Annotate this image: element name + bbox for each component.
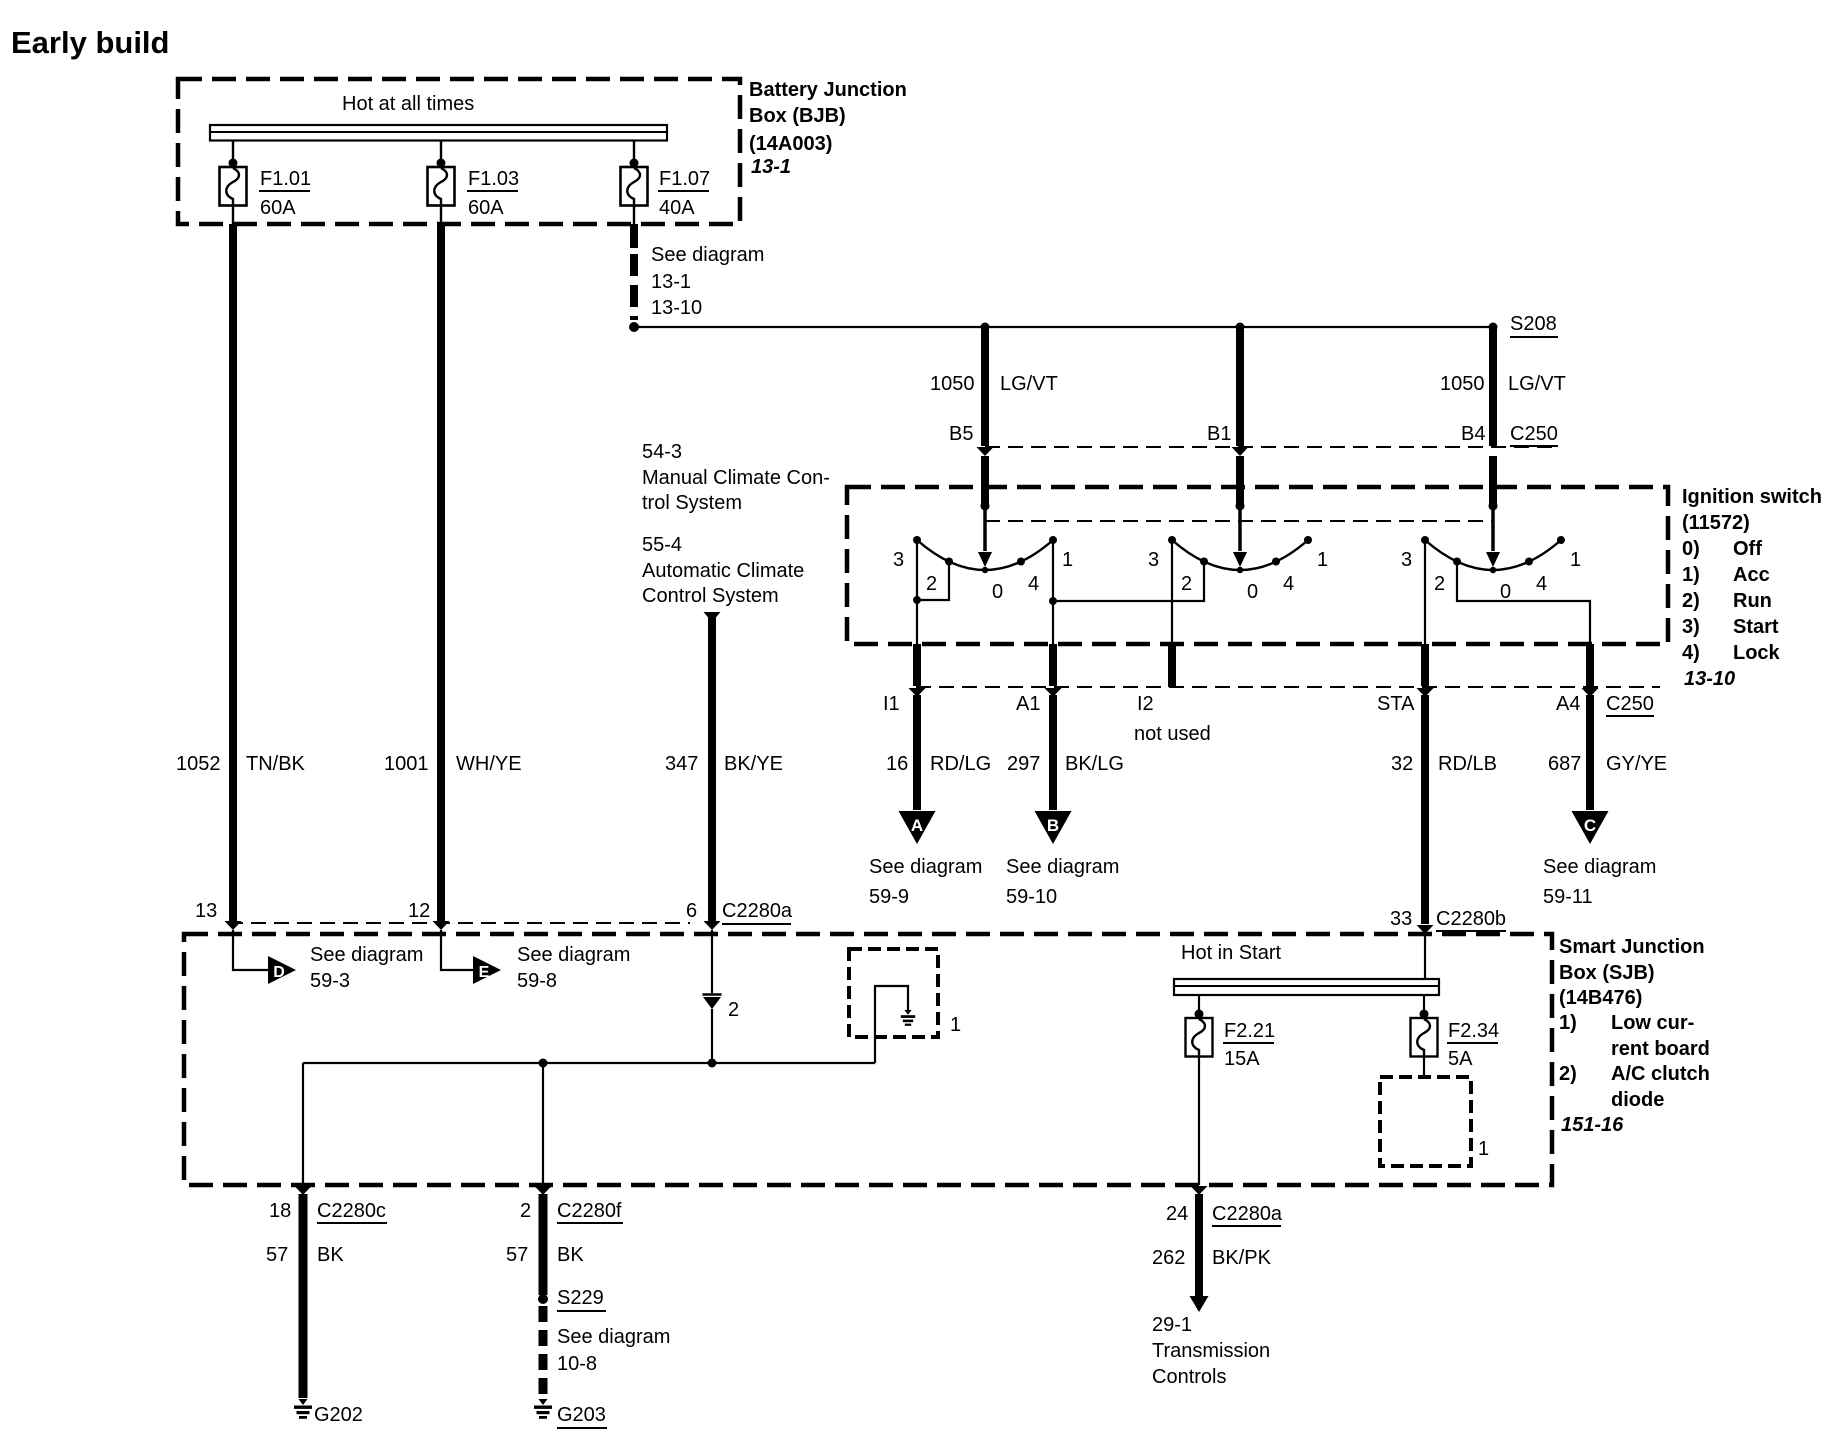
svg-text:3: 3: [1401, 549, 1412, 571]
connector arrow at pin 12: [433, 921, 450, 930]
wire I1 output: [913, 644, 921, 686]
svg-text:297: 297: [1007, 753, 1040, 775]
switch 2 contact 3 line to I2: [1171, 540, 1173, 644]
wire fuse F1.07 to BJB edge: [633, 206, 635, 225]
svg-text:Ignition switch: Ignition switch: [1682, 486, 1822, 508]
wire STA output 32 RD/LB: [1421, 644, 1429, 686]
svg-text:262: 262: [1152, 1247, 1185, 1269]
dashed wire to G203: [539, 1306, 548, 1396]
switch 1 contact 2 jumper: [917, 562, 949, 600]
svg-text:A: A: [911, 816, 923, 835]
svg-text:S208: S208: [1510, 313, 1557, 335]
svg-text:F1.07: F1.07: [659, 168, 710, 190]
wire bus to fuse F2.21: [1198, 995, 1200, 1018]
junction dot B5 branch: [981, 323, 990, 332]
wire 1050 LG/VT to B5: [981, 327, 989, 446]
junction dot C2280f branch: [539, 1059, 548, 1068]
svg-text:See diagram: See diagram: [517, 944, 630, 966]
switch 3 contact 3 line to STA: [1424, 540, 1426, 644]
svg-text:See diagram: See diagram: [651, 244, 764, 266]
svg-text:C2280a: C2280a: [722, 900, 793, 922]
svg-text:13-1: 13-1: [751, 156, 791, 178]
fuse F2.21 15A: [1186, 1018, 1213, 1057]
svg-text:GY/YE: GY/YE: [1606, 753, 1667, 775]
svg-text:54-3: 54-3: [642, 441, 682, 463]
svg-text:WH/YE: WH/YE: [456, 753, 522, 775]
svg-text:Hot at all times: Hot at all times: [342, 93, 474, 115]
switch 3 wiper feed line: [1491, 506, 1495, 551]
svg-text:RD/LG: RD/LG: [930, 753, 991, 775]
svg-text:Controls: Controls: [1152, 1366, 1226, 1388]
wire fuse F1.03 to BJB edge: [440, 206, 442, 225]
svg-text:rent board: rent board: [1611, 1038, 1710, 1060]
Battery Junction Box (BJB) dashed enclosure: [178, 79, 740, 224]
svg-text:13-10: 13-10: [651, 297, 702, 319]
wire A1 output: [1049, 644, 1057, 686]
bus bar Hot in Start: [1174, 979, 1439, 995]
svg-text:3): 3): [1682, 616, 1700, 638]
inner dashed link line: [985, 520, 1493, 522]
svg-text:Manual Climate Con-: Manual Climate Con-: [642, 467, 830, 489]
wire 347 BK/YE: [708, 617, 716, 921]
connector arrow at B1: [1232, 447, 1249, 456]
svg-text:1052: 1052: [176, 753, 221, 775]
wire from F1.07 dashed segment (see diagram): [630, 254, 638, 320]
wire 57 BK left: [299, 1194, 308, 1398]
junction dot at fuse F1.01: [229, 159, 238, 168]
svg-text:Lock: Lock: [1733, 642, 1781, 664]
svg-text:18: 18: [269, 1200, 291, 1222]
svg-text:12: 12: [408, 900, 430, 922]
connector arrow at pin 6: [704, 921, 721, 930]
junction dot switch 1: [913, 596, 921, 604]
svg-text:4): 4): [1682, 642, 1700, 664]
svg-text:A/C clutch: A/C clutch: [1611, 1063, 1710, 1085]
svg-text:40A: 40A: [659, 197, 695, 219]
connector arrow at 33 C2280b: [1417, 925, 1434, 934]
svg-text:F2.21: F2.21: [1224, 1020, 1275, 1042]
svg-text:STA: STA: [1377, 693, 1415, 715]
wire 33 into SJB: [1424, 934, 1426, 979]
wire bus to fuse F1.01: [232, 140, 234, 167]
svg-text:C2280f: C2280f: [557, 1200, 622, 1222]
svg-text:1): 1): [1559, 1012, 1577, 1034]
svg-text:57: 57: [266, 1244, 288, 1266]
off-page arrow A: [899, 811, 936, 844]
svg-text:F1.01: F1.01: [260, 168, 311, 190]
wire F2.34 to A/C clutch diode box: [1423, 1057, 1425, 1078]
svg-text:1050: 1050: [1440, 373, 1485, 395]
junction dot at F2.34: [1420, 1010, 1429, 1019]
wire B5 into switch: [981, 456, 989, 506]
svg-text:4: 4: [1283, 573, 1294, 595]
svg-text:BK: BK: [557, 1244, 584, 1266]
connector line C250 (ignition switch): [985, 446, 1556, 448]
junction node S208 branch: [629, 322, 639, 332]
svg-text:10-8: 10-8: [557, 1353, 597, 1375]
wire fuse F1.01 to BJB edge: [232, 206, 234, 225]
svg-text:1): 1): [1682, 564, 1700, 586]
wire B4 into switch: [1489, 456, 1497, 506]
Ignition switch dashed enclosure: [847, 487, 1668, 644]
off-page arrow D: [268, 956, 296, 984]
svg-text:2): 2): [1559, 1063, 1577, 1085]
junction dot switch 3 feed: [1489, 502, 1498, 511]
junction dot at F2.21: [1195, 1010, 1204, 1019]
svg-text:C250: C250: [1510, 423, 1558, 445]
svg-text:RD/LB: RD/LB: [1438, 753, 1497, 775]
svg-text:Acc: Acc: [1733, 564, 1770, 586]
svg-text:24: 24: [1166, 1203, 1188, 1225]
svg-text:D: D: [273, 964, 285, 981]
svg-text:See diagram: See diagram: [1006, 856, 1119, 878]
svg-text:(14A003): (14A003): [749, 133, 832, 155]
ground G202: [299, 1399, 308, 1405]
svg-text:TN/BK: TN/BK: [246, 753, 306, 775]
svg-text:diode: diode: [1611, 1089, 1664, 1111]
svg-text:57: 57: [506, 1244, 528, 1266]
switch 1 contact arc: [917, 540, 1053, 570]
wire pin 13 to arrow D: [233, 930, 268, 970]
connector arrow at pin 13: [225, 921, 242, 930]
ground bus wire inside SJB: [303, 1062, 875, 1064]
A/C clutch diode dashed box (1): [1380, 1077, 1471, 1166]
svg-text:C250: C250: [1606, 693, 1654, 715]
off-page arrow B: [1035, 811, 1072, 844]
svg-text:Hot in Start: Hot in Start: [1181, 942, 1281, 964]
svg-text:2: 2: [1434, 573, 1445, 595]
svg-text:59-9: 59-9: [869, 886, 909, 908]
wire diode to ground bus: [711, 1009, 713, 1063]
off-page arrow E: [473, 956, 501, 984]
svg-text:A1: A1: [1016, 693, 1040, 715]
wire 262 BK/PK: [1195, 1194, 1203, 1297]
connector line C2280 (SJB top): [228, 922, 690, 924]
switch 2 wiper feed line: [1238, 506, 1242, 551]
svg-text:59-8: 59-8: [517, 970, 557, 992]
svg-text:13: 13: [195, 900, 217, 922]
svg-text:2: 2: [1181, 573, 1192, 595]
switch 2 contact dots: [1168, 536, 1176, 544]
wire from F1.07 solid segment: [630, 224, 638, 248]
arrow into wire 347: [704, 612, 721, 622]
switch 1 contact 1 line to A1 and switch 2 contact 2: [1053, 540, 1204, 601]
ground G203: [539, 1399, 548, 1405]
svg-text:B1: B1: [1207, 423, 1231, 445]
svg-text:3: 3: [1148, 549, 1159, 571]
connector arrow at 2 C2280f: [535, 1186, 552, 1195]
wire 57 BK right: [539, 1194, 548, 1295]
svg-text:not used: not used: [1134, 723, 1211, 745]
bus bar Hot at all times: [210, 125, 667, 141]
svg-text:I1: I1: [883, 693, 900, 715]
svg-text:0): 0): [1682, 538, 1700, 560]
svg-text:BK: BK: [317, 1244, 344, 1266]
connector arrow at B5: [977, 447, 994, 456]
svg-text:C: C: [1584, 816, 1596, 835]
svg-text:1001: 1001: [384, 753, 429, 775]
svg-text:0: 0: [1247, 581, 1258, 603]
svg-text:See diagram: See diagram: [557, 1326, 670, 1348]
svg-text:151-16: 151-16: [1561, 1114, 1624, 1136]
connector arrow at 24 C2280a: [1191, 1186, 1208, 1195]
switch 1 contact 3 line to I1: [916, 540, 918, 644]
svg-text:Run: Run: [1733, 590, 1772, 612]
svg-text:(14B476): (14B476): [1559, 987, 1642, 1009]
connector arrow at 18 C2280c: [295, 1186, 312, 1195]
wire pin 12 to arrow E: [441, 930, 473, 970]
svg-text:13-1: 13-1: [651, 271, 691, 293]
switch 3 contact 2 line to A4: [1457, 562, 1590, 644]
wire B1 into switch: [1236, 456, 1244, 506]
svg-text:2: 2: [520, 1200, 531, 1222]
connector line C250 (outputs): [916, 686, 1660, 688]
arrow to transmission controls: [1190, 1296, 1209, 1312]
svg-text:Control System: Control System: [642, 585, 779, 607]
svg-text:Start: Start: [1733, 616, 1779, 638]
svg-text:Off: Off: [1733, 538, 1762, 560]
svg-text:60A: 60A: [260, 197, 296, 219]
wire to splice S208: [634, 326, 1493, 328]
wire I2 stub (not used): [1168, 644, 1176, 687]
svg-text:5A: 5A: [1448, 1048, 1473, 1070]
wire 1001 WH/YE from F1.03: [437, 224, 445, 921]
wire drop to B1: [1236, 327, 1244, 446]
wire A4 output 687 GY/YE: [1586, 644, 1594, 686]
wire 1052 TN/BK from F1.01: [229, 224, 237, 921]
svg-text:F2.34: F2.34: [1448, 1020, 1499, 1042]
svg-text:32: 32: [1391, 753, 1413, 775]
svg-text:Low cur-: Low cur-: [1611, 1012, 1694, 1034]
fuse F1.07 40A: [621, 167, 648, 206]
svg-text:BK/LG: BK/LG: [1065, 753, 1124, 775]
internal ground symbol: [904, 1010, 911, 1015]
svg-text:347: 347: [665, 753, 698, 775]
svg-text:15A: 15A: [1224, 1048, 1260, 1070]
internal ground dashed box (1): [849, 949, 938, 1037]
switch 2 wiper arrow: [1233, 552, 1247, 567]
wire F2.21 down to SJB edge: [1198, 1057, 1200, 1186]
svg-text:A4: A4: [1556, 693, 1580, 715]
switch 3 contact dots: [1421, 536, 1429, 544]
wire 1050 LG/VT to B4: [1489, 327, 1497, 446]
junction dot at fuse F1.07: [630, 159, 639, 168]
svg-text:1: 1: [1570, 549, 1581, 571]
wire bus to fuse F2.34: [1423, 995, 1425, 1018]
svg-text:See diagram: See diagram: [1543, 856, 1656, 878]
svg-text:55-4: 55-4: [642, 534, 682, 556]
splice S229: [538, 1294, 548, 1304]
wire drop to C2280f: [542, 1063, 544, 1185]
svg-text:4: 4: [1028, 573, 1039, 595]
svg-text:3: 3: [893, 549, 904, 571]
svg-text:16: 16: [886, 753, 908, 775]
off-page arrow C: [1572, 811, 1609, 844]
svg-text:C2280c: C2280c: [317, 1200, 386, 1222]
A/C clutch diode (2): [703, 993, 722, 996]
svg-text:13-10: 13-10: [1684, 668, 1735, 690]
svg-text:59-11: 59-11: [1543, 886, 1593, 908]
Smart Junction Box dashed enclosure: [184, 934, 1552, 1185]
svg-text:trol System: trol System: [642, 492, 742, 514]
svg-text:59-10: 59-10: [1006, 886, 1057, 908]
svg-text:Smart Junction: Smart Junction: [1559, 936, 1705, 958]
svg-text:BK/PK: BK/PK: [1212, 1247, 1272, 1269]
svg-text:LG/VT: LG/VT: [1508, 373, 1566, 395]
wire bus to fuse F1.03: [440, 140, 442, 167]
svg-text:2: 2: [728, 999, 739, 1021]
wire to internal ground: [875, 986, 908, 1063]
svg-text:0: 0: [992, 581, 1003, 603]
svg-text:C2280b: C2280b: [1436, 908, 1506, 930]
svg-text:B: B: [1047, 816, 1059, 835]
svg-text:1: 1: [1317, 549, 1328, 571]
junction dot S208: [1489, 323, 1498, 332]
svg-text:F1.03: F1.03: [468, 168, 519, 190]
switch 1 wiper feed line: [983, 506, 987, 551]
svg-text:LG/VT: LG/VT: [1000, 373, 1058, 395]
svg-text:1: 1: [1478, 1138, 1489, 1160]
svg-text:1050: 1050: [930, 373, 975, 395]
svg-text:60A: 60A: [468, 197, 504, 219]
svg-text:1: 1: [950, 1014, 961, 1036]
junction dot switch 1 feed: [981, 502, 990, 511]
fuse F2.34 5A: [1411, 1018, 1438, 1057]
svg-text:C2280a: C2280a: [1212, 1203, 1283, 1225]
svg-text:33: 33: [1390, 908, 1412, 930]
svg-text:2): 2): [1682, 590, 1700, 612]
junction dot switch 2 feed: [1236, 502, 1245, 511]
junction dot B1 branch: [1236, 323, 1245, 332]
svg-text:B5: B5: [949, 423, 973, 445]
svg-text:G202: G202: [314, 1404, 363, 1426]
svg-text:See diagram: See diagram: [869, 856, 982, 878]
svg-text:1: 1: [1062, 549, 1073, 571]
svg-text:687: 687: [1548, 753, 1581, 775]
fuse F1.03 60A: [428, 167, 455, 206]
svg-text:S229: S229: [557, 1287, 604, 1309]
svg-text:(11572): (11572): [1682, 512, 1750, 534]
svg-text:59-3: 59-3: [310, 970, 350, 992]
svg-text:Battery Junction: Battery Junction: [749, 79, 907, 101]
svg-text:0: 0: [1500, 581, 1511, 603]
svg-text:4: 4: [1536, 573, 1547, 595]
switch 2 contact arc: [1172, 540, 1308, 570]
wire pin 6 to diode: [711, 930, 713, 993]
switch 3 wiper arrow: [1486, 552, 1500, 567]
junction dot at fuse F1.03: [437, 159, 446, 168]
svg-text:See diagram: See diagram: [310, 944, 423, 966]
svg-text:E: E: [479, 964, 490, 981]
svg-text:I2: I2: [1137, 693, 1154, 715]
junction dot diode to bus: [708, 1059, 717, 1068]
svg-text:6: 6: [686, 900, 697, 922]
svg-text:B4: B4: [1461, 423, 1485, 445]
svg-text:Early build: Early build: [11, 25, 169, 60]
wire drop to C2280c: [302, 1063, 304, 1185]
svg-text:29-1: 29-1: [1152, 1314, 1192, 1336]
svg-text:2: 2: [926, 573, 937, 595]
svg-text:BK/YE: BK/YE: [724, 753, 783, 775]
switch 3 contact arc: [1425, 540, 1561, 570]
svg-text:Box (SJB): Box (SJB): [1559, 962, 1655, 984]
svg-text:Box (BJB): Box (BJB): [749, 105, 846, 127]
wire bus to fuse F1.07: [633, 140, 635, 167]
junction dot A1 branch: [1049, 597, 1057, 605]
wire A1 drop inside box: [1052, 601, 1054, 644]
fuse F1.01 60A: [220, 167, 247, 206]
switch 1 wiper arrow: [978, 552, 992, 567]
svg-text:Automatic Climate: Automatic Climate: [642, 560, 804, 582]
switch 1 contact dots: [913, 536, 921, 544]
svg-text:G203: G203: [557, 1404, 606, 1426]
svg-text:Transmission: Transmission: [1152, 1340, 1270, 1362]
